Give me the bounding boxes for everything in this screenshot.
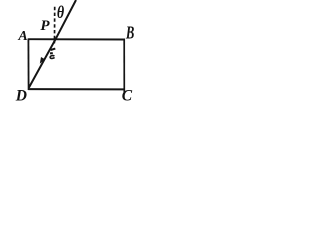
- svg-text:D: D: [15, 87, 27, 104]
- svg-text:A: A: [17, 29, 27, 44]
- svg-text:C: C: [122, 87, 133, 104]
- svg-text:θ: θ: [57, 4, 64, 23]
- svg-text:B: B: [125, 23, 134, 43]
- svg-text:P: P: [40, 18, 50, 34]
